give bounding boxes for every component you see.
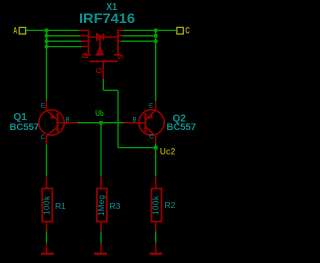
ground R2 — [149, 243, 162, 253]
svg-text:Ub: Ub — [95, 108, 104, 118]
gate pin — [102, 61, 104, 79]
Q1 base pin — [58, 122, 78, 124]
svg-text:C: C — [41, 135, 46, 141]
svg-text:R1: R1 — [55, 201, 66, 211]
svg-text:C: C — [149, 134, 154, 140]
port A square — [19, 27, 25, 34]
drain pin stubs — [79, 29, 89, 31]
wire Q1 collector down to R1 — [46, 144, 48, 176]
ground R3 — [94, 243, 107, 253]
Q1 collector pin — [46, 127, 57, 145]
junction Uc2 — [154, 145, 158, 149]
svg-text:100k: 100k — [152, 195, 161, 215]
junction dots right column — [154, 28, 158, 43]
svg-text:D: D — [81, 53, 90, 59]
wire to Uc2 node — [118, 147, 156, 149]
svg-text:S: S — [117, 54, 126, 60]
wire drain stub 1 — [47, 29, 81, 31]
Q1 base bar — [57, 113, 59, 132]
svg-text:100k: 100k — [43, 195, 52, 215]
svg-text:C: C — [185, 26, 190, 36]
wire source stub 3 — [121, 40, 156, 42]
channel tick left — [85, 54, 91, 56]
wire R1 to ground — [46, 231, 48, 243]
R3 bottom pin — [100, 222, 102, 232]
Q1 emitter pin — [46, 101, 57, 120]
resistor R3 — [97, 176, 107, 231]
svg-text:E: E — [149, 104, 153, 110]
wire gate down — [102, 79, 104, 90]
wire left vertical bus — [46, 30, 48, 100]
wire gate jog right — [103, 89, 118, 91]
wire Q2 collector down — [155, 144, 157, 177]
R2 top pin — [155, 176, 157, 188]
wire source stub 1 — [123, 29, 156, 31]
wire gate vertical to Uc2 — [117, 90, 119, 147]
svg-text:A: A — [13, 26, 17, 36]
wire R2 to ground — [155, 231, 157, 243]
resistor R2 — [152, 176, 162, 231]
transistor Q2 — [124, 101, 165, 143]
Q2 base bar — [145, 113, 147, 132]
Q2 circle — [139, 110, 164, 135]
Q1 emitter arrow — [50, 114, 57, 119]
junction dots left column — [45, 28, 49, 48]
svg-text:B: B — [133, 118, 137, 124]
wire drain stub 4 — [47, 46, 83, 48]
wire drain stub 3 — [47, 40, 82, 42]
svg-text:BC557: BC557 — [167, 122, 197, 133]
R2 box — [152, 189, 162, 222]
wire Q1 base to Q2 base — [77, 122, 124, 124]
Q1 circle — [39, 110, 64, 135]
wire R3 to ground — [100, 231, 102, 243]
body diode triangle — [97, 34, 103, 40]
substrate line — [99, 37, 101, 55]
drain rail — [88, 30, 90, 55]
svg-text:BC557: BC557 — [10, 122, 40, 133]
body diode cathode bar — [102, 34, 104, 41]
wire right vertical bus — [155, 30, 157, 101]
Q2 emitter arrow — [146, 114, 153, 119]
wire source stub 2 — [122, 35, 156, 37]
channel tick middle — [96, 54, 104, 56]
resistor R1 — [42, 176, 52, 231]
source rail — [117, 30, 119, 55]
gate plate — [90, 60, 118, 62]
R3 box — [97, 189, 107, 222]
wire C to node — [156, 29, 177, 31]
wire drain stub 2 — [47, 35, 81, 37]
R2 bottom pin — [155, 222, 157, 232]
junction Ub — [99, 121, 103, 125]
mosfet X1 body — [79, 30, 124, 79]
port C square — [177, 27, 183, 34]
transistor Q1 — [39, 101, 77, 145]
Q2 base pin — [124, 122, 146, 124]
ground R1 — [41, 243, 54, 253]
substrate arrow — [97, 47, 103, 54]
R3 top pin — [100, 176, 102, 188]
svg-text:IRF7416: IRF7416 — [79, 10, 135, 26]
body diode line — [89, 36, 119, 38]
Q2 emitter pin — [146, 101, 156, 119]
R1 bottom pin — [46, 222, 48, 232]
svg-text:R3: R3 — [110, 201, 121, 211]
channel tick right — [114, 54, 120, 56]
svg-text:G: G — [95, 67, 104, 73]
Q2 collector pin — [146, 127, 156, 144]
svg-text:E: E — [41, 104, 45, 110]
source pin stubs — [118, 29, 124, 31]
R1 top pin — [46, 176, 48, 188]
wire A to node — [26, 29, 47, 31]
R1 box — [42, 189, 52, 222]
wire Ub down to R3 — [100, 123, 102, 177]
svg-text:Uc2: Uc2 — [160, 147, 176, 158]
svg-text:B: B — [66, 118, 70, 124]
svg-text:1Meg: 1Meg — [97, 195, 106, 216]
svg-text:R2: R2 — [165, 200, 176, 210]
